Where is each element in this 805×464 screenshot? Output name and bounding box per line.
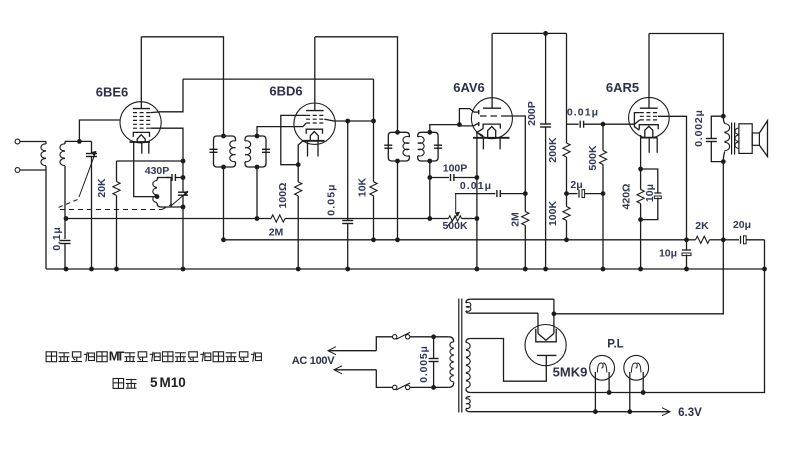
speaker frame and secondary [739,124,752,154]
AC plug arrows [328,350,376,352]
wire: OPT bottom down to B+ node [722,162,724,240]
node: IFT1 sec top [255,134,260,139]
wire: AC to switch [376,337,392,351]
volume potentiometer 500K [430,218,449,220]
T2 rectifier filament winding [466,299,470,303]
node: plate rail / 200P [543,31,548,36]
svg-text:20μ: 20μ [733,219,751,231]
resistor 500K (6AR5 grid leak) [602,124,604,150]
6AR5 suppressor bracket [634,113,639,131]
node: OPT primary bottom [721,159,726,164]
wire: grid node to 6AR5 [603,123,635,125]
svg-text:420Ω: 420Ω [621,184,633,210]
svg-text:0.01μ: 0.01μ [460,180,492,192]
node: OPT primary top [721,114,726,119]
pilot lamp PL1 [590,355,615,380]
6AV6 cathode box and heater [483,124,500,129]
node: ground right end [762,267,767,272]
wire: osc vertical [182,161,184,192]
6BD6 cathode box and heater [306,129,322,134]
6AV6 cathode fork [477,128,483,135]
svg-text:10μ: 10μ [659,248,677,260]
capacitor 2u (decoupling electrolytic) [567,193,578,195]
5MK9 plate [537,354,556,356]
capacitor 20u (filter input) [723,239,739,241]
node: 100ohm ground [296,267,301,272]
6BD6 plate [306,110,324,112]
pilot lamp PL2 [624,355,649,380]
wire: 6BD6 cathode down [298,141,303,165]
capacitor 0.1u (AVC filter) [64,216,69,221]
node: screen node [371,119,376,124]
6BE6 cathode box and heater [133,132,149,137]
wire: IFT2 primary bottom to B+ bus [397,161,399,240]
node: 2M ground [523,267,528,272]
wire: 6AV6 plate rail [492,32,566,34]
svg-text:0.002μ: 0.002μ [693,109,705,147]
6AV6 grid lead right [506,116,525,194]
wire: 5MK9 plate to HV winding [470,339,546,382]
IFT1 primary capacitor [210,148,218,150]
node: 0.01u to grid line [523,191,528,196]
tube 6BD6 envelope [294,103,335,144]
T2 core [458,299,460,413]
svg-text:6AV6: 6AV6 [453,80,485,95]
svg-text:100K: 100K [547,201,559,227]
node: 100K to B+ bus [564,237,569,242]
svg-text:5M10: 5M10 [150,375,186,390]
title: 神戸工業の MT 管ラジオの初期の回路図 [46,352,57,362]
capacitor 0.05u (screen bypass) [345,119,350,124]
resistor 20K (osc grid leak) [116,161,118,178]
node: IFT2 sec top [427,130,432,135]
svg-text:6.3V: 6.3V [678,407,702,419]
wire: filament winding to 5MK9 [553,299,555,327]
svg-text:2M: 2M [510,212,522,227]
node: osc grid junction [181,159,186,164]
capacitor 0.005u (line filter) [433,337,435,359]
variable capacitor VC2 (osc) [178,191,188,193]
wire: AVC bus right segment [287,218,430,220]
IFT2 primary capacitor [384,144,392,146]
wire: junction to 6BE6 signal grid [79,120,120,141]
resistor 2M (AVC) [269,218,271,220]
node: IFT2 bottom [395,159,400,164]
arrow of VC1 [79,151,96,197]
wire: secondary top to junction [65,140,79,142]
6BD6 suppressor bracket [281,115,306,164]
pot 500K wiper arrow [448,212,460,226]
PL2 leads [629,372,631,412]
6BD6 control grid lead [303,123,306,127]
node: osc ground [181,267,186,272]
title: 型名 5M10 [113,379,124,389]
6AV6 diode bracket [459,109,474,125]
svg-text:AC 100V: AC 100V [292,355,335,367]
wire: ground bus [46,268,765,270]
resistor 2M (6AV6 grid leak) [524,194,526,212]
wire: AVC bus left segment [66,218,269,220]
antenna terminal J1 [15,139,20,144]
wire: J2 to ground [45,170,47,269]
OPT core [731,123,733,155]
svg-text:20K: 20K [96,178,108,198]
6BE6 screen lead to right [151,79,184,113]
svg-text:6BE6: 6BE6 [96,85,129,100]
node: 6AR5 grid node [601,122,606,127]
6BE6 plate [133,108,150,110]
tube 6BE6 envelope [120,102,161,143]
IF transformer IFT1 secondary [245,136,257,141]
svg-text:0.05μ: 0.05μ [326,183,338,215]
node: 500K ground [601,267,606,272]
wire: B+ raw riser [554,240,723,314]
svg-text:500K: 500K [442,220,468,232]
node: IFT2 top [395,130,400,135]
svg-text:0.01μ: 0.01μ [567,107,599,119]
node: cathode RC top [638,167,643,172]
node: 10u ground [684,267,689,272]
6AR5 screen lead right [658,116,687,240]
6AV6 grid row [480,115,506,117]
resistor 2K (filter) [687,239,696,241]
wire: ground return to transformer [470,269,764,393]
wire: cathode to ground [640,220,642,269]
svg-text:100Ω: 100Ω [277,183,289,209]
wire: 6BE6 cathode to osc coil tap [134,142,157,197]
svg-text:10K: 10K [357,177,369,197]
resistor 100ohm (cathode) [297,165,299,182]
wire: 6BD6 plate rail to IFT2 [315,37,398,133]
5MK9 filament [537,327,539,334]
PL1 leads [594,372,596,412]
6AR5 grid rows [640,112,658,114]
node: cathode RC bottom [638,217,643,222]
resistor 10K (screen dropper) [373,79,375,121]
capacitor 0.01u (to 6AR5 grid) [567,123,579,125]
IFT2 secondary capacitor [434,144,442,146]
arrow of VC2 [172,191,189,205]
wire: secondary bottom to AVC bus [64,166,66,219]
6AR5 plate [640,107,658,109]
svg-text:2μ: 2μ [570,179,582,191]
6AV6 diode plates [478,110,480,114]
svg-text:0.1μ: 0.1μ [51,226,63,250]
capacitor 10u (cathode bypass) [641,169,658,193]
6AV6 plate [483,107,501,109]
svg-text:500K: 500K [587,145,599,171]
svg-text:2K: 2K [695,220,709,232]
resistor 100K (decoupling) [566,194,568,207]
IF transformer IFT2 secondary [418,132,430,137]
node: 0.005u bottom [431,385,436,390]
svg-text:200K: 200K [547,137,559,163]
6BE6 osc grid lead [151,128,184,161]
node: IFT1 bottom [221,165,226,170]
power switch S1a [393,335,397,339]
tube 5MK9 envelope [525,325,566,366]
wire: IFT1 sec top to 6BD6 grid [257,127,303,136]
wire: IFT1 primary bottom to B+ bus [223,167,225,240]
IFT1 secondary capacitor [262,148,270,150]
node: pot right / ground vertical [475,216,480,221]
wire: IFT2 sec top to 6AV6 diode [430,125,460,133]
gang dashed link [59,200,78,208]
6BE6 grid rows [133,112,151,114]
wire: IFT1 sec bottom to AVC bus [256,167,258,219]
6BD6 screen lead [324,119,373,121]
svg-text:2M: 2M [269,227,284,239]
svg-text:0.005μ: 0.005μ [418,345,430,383]
tube 6AV6 envelope [471,98,512,139]
svg-text:5MK9: 5MK9 [553,365,588,380]
wire: 6AR5 plate rail to output transformer [649,34,723,117]
5MK9 cathode cup [536,329,556,342]
node: IFT1 sec bottom [255,165,260,170]
svg-text:T: T [116,349,124,364]
variable capacitor VC1 (tuning, antenna) [79,140,91,142]
T2 6.3V heater winding [466,397,470,400]
power transformer T2 primary [449,337,454,342]
6AR5 cathode box and heater [639,125,658,130]
svg-text:10μ: 10μ [644,184,656,202]
6AR5 cathode lead [640,135,642,169]
node: 0.05u ground [345,267,350,272]
node: grid junction [77,139,82,144]
6BD6 grid rows [306,114,324,116]
svg-text:200P: 200P [526,101,538,126]
T2 HV winding [466,339,470,343]
IF transformer IFT2 primary [388,132,397,161]
svg-text:100P: 100P [443,163,468,175]
node: rectifier output [552,311,557,316]
node: diode junction [457,122,462,127]
wire: B+ bus [224,239,687,241]
speaker throat [752,133,759,145]
wire: 6AV6 cathode to ground [476,133,478,178]
capacitor 200P [545,33,547,124]
svg-text:6BD6: 6BD6 [269,84,302,99]
wire: plate top rail to IFT1 [141,37,223,136]
output transformer primary [723,116,725,123]
svg-text:430P: 430P [145,165,170,177]
wire: G1 line to 20K [117,160,184,162]
wire: 20u to ground corner [764,240,766,269]
node: 20K ground [114,267,119,272]
svg-text:6AR5: 6AR5 [606,80,639,95]
node: 500K bottom [601,191,606,196]
capacitor 0.002u (tone) [711,116,723,138]
capacitor 0.01u (AF coupling) [455,193,495,195]
antenna terminal J2 [15,168,20,173]
node: IFT1 top [221,134,226,139]
node: 0.005u top [431,334,436,339]
node: 200K/100K junction [564,191,569,196]
capacitor 100P (IF filter) [430,177,449,179]
wire: screen bus rail [183,78,374,80]
node: 10K to B+ bus [371,237,376,242]
node: IFT2 sec bottom [427,159,432,164]
speaker horn [759,121,767,157]
tube 6AR5 envelope [629,97,670,138]
node: VC1 ground [89,267,94,272]
node: 200P ground [543,267,548,272]
wire: 6.3V line with arrow [470,411,670,413]
capacitor 430P (osc grid) [157,177,170,179]
svg-text:P.L: P.L [607,339,623,351]
capacitor 10u (filter) [686,240,688,250]
power switch S1b [393,385,397,389]
IF transformer IFT1 primary [214,136,224,167]
node: B+ raw node [721,237,726,242]
6AR5 grid lead left [635,120,640,124]
antenna coil T1 primary [45,142,47,145]
resistor 200K (plate load) [566,33,568,135]
wire: IFT2 sec bottom down [429,161,431,219]
node: 0.1u ground [64,267,69,272]
node: screen+10u node on B+ [684,237,689,242]
wire: switch to primary [410,336,449,338]
antenna coil T1 secondary [64,141,66,144]
oscillator coil L2 [157,178,159,181]
resistor 420ohm (cathode bias) [640,169,642,190]
